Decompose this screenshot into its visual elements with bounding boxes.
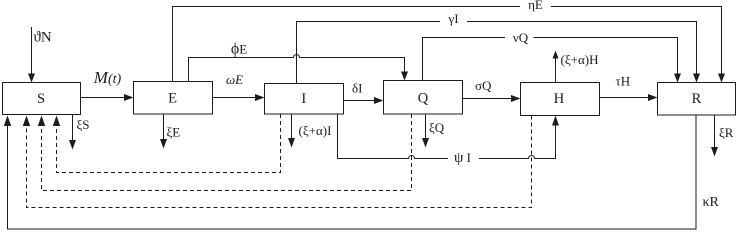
wire phi-E from E top to Q top, hop over gamma-I vertical (189, 55, 405, 82)
arrowhead E to I (255, 94, 265, 101)
box Q (384, 81, 463, 115)
arrowhead phi-E into Q top (401, 72, 408, 81)
box R (658, 83, 736, 116)
arrow S to E (81, 97, 125, 99)
svg-text:ξE: ξE (167, 125, 181, 140)
dashed feedback H to S (27, 116, 532, 208)
wire xi-S output below S (72, 115, 74, 141)
svg-text:(ξ+α)H: (ξ+α)H (561, 52, 599, 67)
arrowhead xi-Q down (422, 138, 429, 148)
arrowhead dashed-I into S bottom (53, 116, 60, 127)
arrowhead vartheta-N into S top (28, 74, 35, 83)
arrowhead xi-S down (69, 140, 76, 150)
wire xi-R output below R (714, 115, 716, 148)
arrowhead (xi+alpha)H up (553, 51, 559, 59)
svg-text:κR: κR (703, 195, 720, 210)
arrowhead gamma-I into R top (693, 74, 700, 83)
svg-text:S: S (37, 91, 45, 107)
svg-text:I: I (301, 91, 306, 107)
arrowhead xi-E down (160, 139, 167, 149)
arrowhead I to Q (374, 97, 384, 104)
svg-text:νQ: νQ (513, 30, 529, 45)
svg-text:(ξ+α)I: (ξ+α)I (299, 123, 332, 138)
svg-text:ηE: ηE (528, 0, 543, 12)
box H (521, 83, 600, 116)
box S (3, 83, 81, 115)
arrowhead dashed-Q into S bottom (38, 116, 45, 127)
arrowhead eta-E into R top (718, 74, 725, 83)
svg-text:ξQ: ξQ (429, 120, 445, 135)
wire kappa-R feedback R to S (8, 115, 697, 229)
svg-text:H: H (554, 91, 565, 107)
svg-text:γI: γI (447, 11, 458, 26)
wire vartheta-N input to S (31, 27, 33, 74)
arrowhead (xi+alpha)I down (288, 138, 295, 148)
svg-text:ψ I: ψ I (454, 150, 471, 166)
arrowhead psi-I into H bottom (552, 116, 559, 126)
arrow I to Q (344, 100, 375, 102)
wire (xi+alpha)I output below I (291, 114, 293, 139)
arrowhead S to E (124, 94, 134, 101)
svg-text:R: R (692, 91, 702, 107)
wire nu-Q from Q top to R top (423, 38, 506, 81)
wire (xi+alpha)H output above H (555, 58, 557, 83)
svg-text:ξS: ξS (77, 117, 90, 132)
svg-text:ϕE: ϕE (231, 41, 247, 58)
arrow E to I (213, 97, 256, 99)
svg-text:ωE: ωE (226, 72, 243, 87)
svg-text:δI: δI (352, 81, 362, 96)
arrowhead H to R (648, 94, 658, 101)
svg-text:ξR: ξR (719, 125, 734, 140)
box I (265, 84, 344, 115)
arrowhead kappa-R into S bottom (4, 116, 11, 127)
svg-text:σQ: σQ (475, 78, 492, 93)
arrowhead Q to H (511, 95, 521, 102)
svg-text:E: E (168, 90, 177, 106)
wire xi-Q output below Q (425, 114, 427, 139)
svg-text:Q: Q (418, 90, 429, 106)
svg-text:τH: τH (616, 74, 631, 89)
wire eta-E from E top to R top (173, 7, 521, 82)
svg-text:ϑN: ϑN (34, 30, 52, 46)
arrowhead nu-Q into R top (674, 74, 681, 83)
dashed feedback Q to S (42, 114, 412, 191)
arrowhead xi-R down (711, 147, 718, 157)
wire psi-I from I bottom to H bottom, hops over dashed verticals (338, 114, 449, 159)
dashed feedback I to S (57, 114, 281, 173)
arrow H to R (600, 97, 649, 99)
wire xi-E output below E (163, 114, 165, 140)
arrowhead dashed-H into S bottom (23, 116, 30, 127)
box E (134, 82, 213, 115)
wire gamma-I from I top to R top (297, 22, 441, 84)
arrow Q to H (463, 98, 512, 100)
